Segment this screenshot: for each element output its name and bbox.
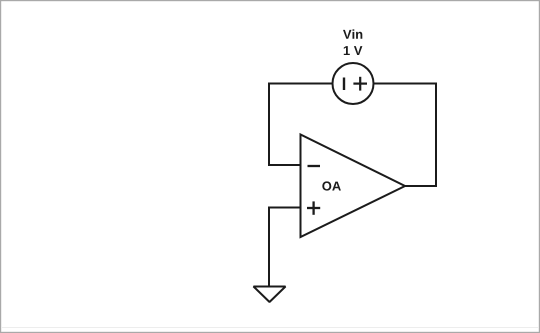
label OA: [322, 181, 341, 190]
voltage source plus sign: [353, 77, 367, 91]
wire: right vertical down to output level: [435, 84, 437, 188]
voltage source V1 (Vin) body: [333, 63, 374, 104]
op-amp OA body: [301, 135, 406, 238]
value label 1 V: [344, 46, 363, 55]
op-amp non-inverting input plus sign: [307, 201, 320, 214]
wire: Vin right terminal to right vertical: [374, 83, 438, 85]
op-amp inverting input minus sign: [308, 165, 321, 167]
label Vin: [343, 29, 362, 38]
wire: inverting input stub: [268, 164, 301, 166]
wire: left vertical down to ground: [268, 208, 270, 287]
ground symbol: [254, 287, 286, 303]
wire: output stub to op-amp apex: [405, 185, 437, 187]
voltage source minus-terminal bar: [343, 78, 345, 91]
wire: non-inverting input stub: [268, 207, 301, 209]
wire: Vin left terminal to left vertical: [268, 83, 333, 85]
wire: left vertical down to inverting input: [268, 84, 270, 167]
